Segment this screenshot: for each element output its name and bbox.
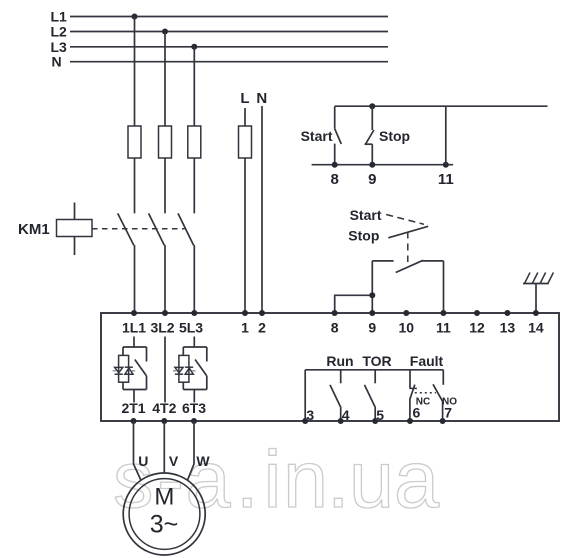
- svg-text:L3: L3: [51, 39, 68, 55]
- node 14: [533, 310, 539, 316]
- node 9: [369, 310, 375, 316]
- node 1L1: [131, 310, 137, 316]
- svg-text:2: 2: [258, 320, 266, 336]
- svg-text:3~: 3~: [150, 510, 179, 538]
- wire 11 drop: [443, 261, 445, 313]
- node 11 remote: [443, 162, 449, 168]
- svg-text:N: N: [52, 54, 62, 70]
- contact sel right: [422, 260, 444, 262]
- svg-text:Stop: Stop: [348, 227, 379, 243]
- node 3: [302, 418, 308, 424]
- relay bus: [305, 369, 443, 371]
- wire remote top: [335, 105, 548, 107]
- contact TOR: [365, 370, 376, 421]
- wire W: [187, 421, 194, 481]
- contact Fault NO: [433, 370, 443, 421]
- node 6: [407, 418, 413, 424]
- rail L3: [51, 39, 389, 55]
- svg-text:1: 1: [241, 320, 249, 336]
- wire pole1 lower: [134, 245, 136, 313]
- selector dashed position: [386, 215, 424, 225]
- wire ground drop: [535, 284, 537, 314]
- svg-text:3: 3: [306, 407, 314, 423]
- svg-text:M: M: [154, 483, 174, 510]
- svg-text:3L2: 3L2: [150, 320, 174, 336]
- svg-text:8: 8: [331, 320, 339, 336]
- rail L2: [51, 24, 389, 40]
- KM1 contact pole3: [178, 213, 194, 245]
- contactor KM1 coil: [18, 203, 92, 256]
- KM1 link dashed: [92, 228, 185, 230]
- selector dashed drop: [407, 232, 409, 263]
- node top stop: [369, 103, 375, 109]
- wire 11 riser: [445, 106, 447, 165]
- pushbutton Stop: [365, 106, 411, 165]
- node 2T1: [131, 418, 137, 424]
- node 3L2: [162, 310, 168, 316]
- wire L3 drop: [193, 47, 195, 214]
- svg-text:1L1: 1L1: [122, 320, 146, 336]
- svg-text:5L3: 5L3: [179, 320, 203, 336]
- SCR pair module 2: [173, 367, 196, 374]
- node 9 remote: [369, 162, 375, 168]
- svg-text:9: 9: [368, 320, 376, 336]
- svg-text:L2: L2: [51, 24, 68, 40]
- KM1 contact pole1: [118, 213, 134, 245]
- node 13: [504, 310, 510, 316]
- svg-text:TOR: TOR: [362, 353, 391, 369]
- pushbutton Start: [301, 106, 342, 165]
- thyristor module 1: [119, 337, 147, 403]
- svg-text:4: 4: [342, 407, 350, 423]
- wire pole2 lower: [164, 245, 166, 313]
- link NC-NO dotted: [415, 392, 436, 394]
- svg-text:N: N: [256, 90, 267, 107]
- wire remote bottom: [312, 164, 454, 166]
- node L1 tap: [132, 14, 138, 20]
- rail N: [52, 54, 389, 70]
- thyristor module 2: [179, 337, 207, 403]
- svg-text:V: V: [169, 453, 179, 469]
- fuse F3: [188, 126, 201, 158]
- fuse F2: [159, 126, 172, 158]
- node 7: [440, 418, 446, 424]
- svg-text:Stop: Stop: [379, 128, 410, 144]
- fuse F4: [239, 126, 252, 158]
- node L3 tap: [191, 44, 197, 50]
- svg-text:2T1: 2T1: [121, 400, 145, 416]
- wire L1 drop: [134, 17, 136, 214]
- node 12: [474, 310, 480, 316]
- svg-text:L1: L1: [51, 9, 68, 25]
- contact Run: [330, 370, 341, 421]
- svg-text:Start: Start: [301, 128, 333, 144]
- node 8 remote: [332, 162, 338, 168]
- contact Fault NC: [409, 370, 417, 421]
- svg-text:6T3: 6T3: [182, 400, 206, 416]
- node 8: [332, 310, 338, 316]
- KM1 contact pole2: [149, 213, 165, 245]
- svg-text:5: 5: [376, 407, 384, 423]
- node 6T3: [191, 418, 197, 424]
- node 8-9 junction: [369, 292, 375, 298]
- wire U: [134, 421, 142, 481]
- fuse F1: [128, 126, 141, 158]
- node 1: [242, 310, 248, 316]
- wire L control: [244, 108, 246, 313]
- wire L2 drop: [164, 32, 166, 214]
- svg-text:13: 13: [500, 320, 516, 336]
- svg-text:10: 10: [399, 320, 415, 336]
- contact sel blade: [396, 260, 423, 272]
- node L2 tap: [162, 29, 168, 35]
- svg-text:6: 6: [413, 405, 421, 421]
- wire terminal 3: [304, 370, 306, 421]
- svg-text:W: W: [196, 453, 210, 469]
- selector blade: [388, 226, 428, 238]
- svg-text:4T2: 4T2: [152, 400, 176, 416]
- svg-text:Run: Run: [326, 353, 353, 369]
- soft starter U1 outline: [101, 313, 559, 421]
- node 10: [403, 310, 409, 316]
- wire 8 link: [335, 295, 373, 313]
- svg-text:KM1: KM1: [18, 221, 50, 238]
- motor M1: [123, 473, 205, 555]
- node 5L3: [191, 310, 197, 316]
- SCR pair module 1: [113, 367, 136, 374]
- svg-text:11: 11: [436, 320, 451, 336]
- wire N control: [261, 106, 263, 313]
- svg-text:14: 14: [528, 320, 544, 336]
- svg-text:12: 12: [469, 320, 485, 336]
- svg-text:Fault: Fault: [410, 353, 444, 369]
- svg-text:7: 7: [444, 405, 452, 421]
- svg-text:11: 11: [438, 171, 454, 188]
- node 2: [259, 310, 265, 316]
- svg-text:U: U: [138, 453, 148, 469]
- contact sel left: [372, 260, 393, 262]
- wire pole3 lower: [193, 245, 195, 313]
- node 4: [338, 418, 344, 424]
- svg-text:L: L: [240, 90, 249, 107]
- wire 3L2-4T2: [164, 337, 166, 403]
- wire 9 riser: [371, 261, 373, 313]
- rail L1: [51, 9, 389, 25]
- svg-text:8: 8: [331, 171, 339, 188]
- svg-text:Start: Start: [350, 207, 382, 223]
- node 11: [440, 310, 446, 316]
- svg-text:9: 9: [368, 171, 376, 188]
- node 5: [372, 418, 378, 424]
- ground: [523, 273, 553, 284]
- wire V: [163, 421, 165, 474]
- node 4T2: [161, 418, 167, 424]
